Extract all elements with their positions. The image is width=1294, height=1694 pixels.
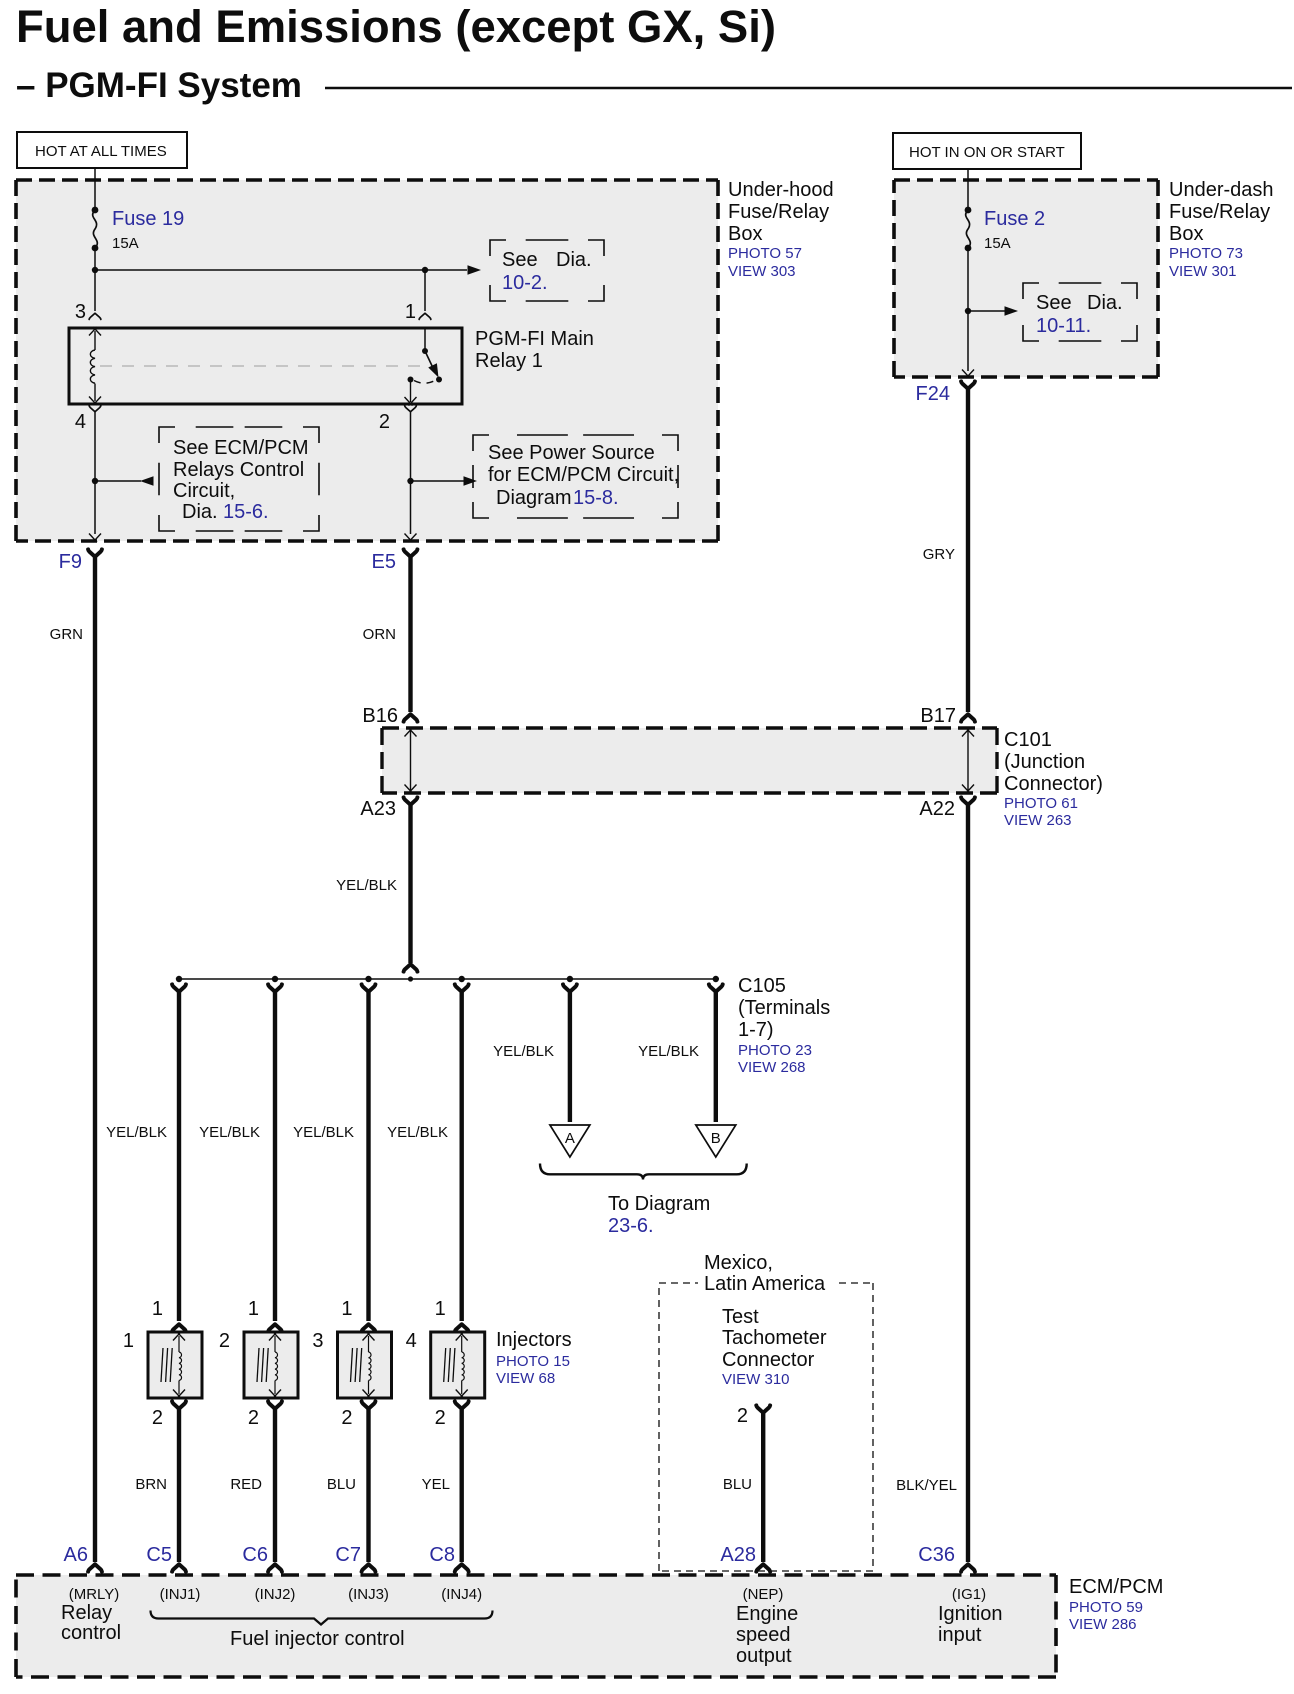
svg-text:VIEW 303: VIEW 303 <box>728 263 796 280</box>
wire: HOT AT ALL TIMES feed to Fuse 19 <box>94 168 96 210</box>
junction node (95,270) <box>92 267 98 273</box>
svg-text:Dia.: Dia. <box>556 249 592 271</box>
arrowhead at under-hood box exit (E5) <box>405 534 417 543</box>
connector B16 chevron <box>404 714 418 721</box>
wire: stub to See Dia. 10-11 <box>968 310 1005 312</box>
injector 4 body <box>431 1332 485 1398</box>
svg-text:Connector): Connector) <box>1004 773 1103 795</box>
connector chevron below injector 3 <box>362 1401 376 1408</box>
svg-text:Fuse 19: Fuse 19 <box>112 208 184 230</box>
connector C7 chevron at ECM/PCM <box>362 1564 376 1571</box>
svg-text:BLU: BLU <box>723 1476 752 1493</box>
fuse F2 15A <box>965 207 972 252</box>
svg-text:1: 1 <box>435 1298 446 1320</box>
svg-text:BLU: BLU <box>327 1476 356 1493</box>
svg-text:HOT AT ALL TIMES: HOT AT ALL TIMES <box>35 143 167 160</box>
injector 2 body <box>244 1332 298 1398</box>
svg-text:C7: C7 <box>335 1544 361 1566</box>
svg-text:(INJ1): (INJ1) <box>160 1586 201 1603</box>
junction node (425,270) <box>422 267 428 273</box>
svg-text:C8: C8 <box>429 1544 455 1566</box>
svg-text:1: 1 <box>341 1298 352 1320</box>
svg-text:input: input <box>938 1624 982 1646</box>
arrowhead at under-hood box exit (F9) <box>89 534 101 543</box>
svg-text:YEL/BLK: YEL/BLK <box>387 1124 448 1141</box>
connector chevron below injector 4 <box>455 1401 469 1408</box>
svg-text:(IG1): (IG1) <box>952 1586 986 1603</box>
svg-text:2: 2 <box>341 1407 352 1429</box>
relay coil L (pin3-pin4) <box>89 327 101 336</box>
svg-text:BLK/YEL: BLK/YEL <box>896 1477 957 1494</box>
svg-text:Injectors: Injectors <box>496 1329 572 1351</box>
svg-text:C105: C105 <box>738 975 786 997</box>
svg-text:15-8.: 15-8. <box>573 487 619 509</box>
svg-text:Under-dash: Under-dash <box>1169 179 1274 201</box>
svg-text:HOT IN ON OR START: HOT IN ON OR START <box>909 144 1065 161</box>
svg-text:VIEW 263: VIEW 263 <box>1004 812 1072 829</box>
svg-text:1: 1 <box>123 1330 134 1352</box>
svg-text:2: 2 <box>152 1407 163 1429</box>
svg-text:(INJ4): (INJ4) <box>441 1586 482 1603</box>
svg-text:output: output <box>736 1645 792 1667</box>
annotation box See Power Source for ECM/PCM Circuit Diagram 15-8 <box>473 435 678 518</box>
connector A23 chevron <box>404 797 418 804</box>
white mask behind Latin America text <box>698 1270 834 1296</box>
svg-text:VIEW 268: VIEW 268 <box>738 1059 806 1076</box>
C105 branch connector chevron 2 <box>268 984 282 991</box>
Mexico Latin America variant enclosure <box>659 1283 873 1571</box>
junction node (968,311) <box>965 308 971 314</box>
svg-text:F24: F24 <box>916 383 950 405</box>
arrowhead to See Dia. 10-11 <box>1005 306 1019 316</box>
svg-text:PHOTO 59: PHOTO 59 <box>1069 1599 1143 1616</box>
junction connector C101 <box>382 728 997 793</box>
svg-text:4: 4 <box>75 411 86 433</box>
wire C105 branch 6 to triangle B (YEL/BLK) <box>714 992 718 1122</box>
svg-text:C5: C5 <box>146 1544 172 1566</box>
pin 1 connector chevron <box>419 313 431 319</box>
wire: fuse 19 to node at y270 <box>94 248 96 270</box>
wire C105 branch 1 to injector 1 (YEL/BLK) <box>177 992 181 1321</box>
injector 2 coil <box>269 1332 281 1341</box>
svg-text:1: 1 <box>405 301 416 323</box>
svg-text:PHOTO 61: PHOTO 61 <box>1004 795 1078 812</box>
under-dash fuse/relay box enclosure <box>894 180 1158 377</box>
svg-text:Fuse/Relay: Fuse/Relay <box>728 201 829 223</box>
svg-text:ECM/PCM: ECM/PCM <box>1069 1576 1163 1598</box>
svg-text:Relay 1: Relay 1 <box>475 350 543 372</box>
wire C105 branch 3 to injector 3 (YEL/BLK) <box>366 992 370 1321</box>
svg-text:YEL/BLK: YEL/BLK <box>106 1124 167 1141</box>
svg-text:C101: C101 <box>1004 729 1052 751</box>
relay switch throw dashed arc <box>414 381 435 384</box>
connector A28 chevron at ECM/PCM <box>756 1564 770 1571</box>
arrowhead at under-dash box exit (F24) <box>962 370 974 379</box>
connector C36 chevron at ECM/PCM <box>961 1564 975 1571</box>
svg-text:A6: A6 <box>64 1544 88 1566</box>
C105 junction bus <box>179 978 716 980</box>
junction node (179,979) <box>176 976 182 982</box>
svg-text:10-11.: 10-11. <box>1036 315 1091 337</box>
svg-text:See: See <box>1036 292 1072 314</box>
svg-text:for ECM/PCM Circuit,: for ECM/PCM Circuit, <box>488 464 679 486</box>
svg-text:Test: Test <box>722 1306 759 1328</box>
wire injector 4 to C8 <box>460 1409 464 1562</box>
injector 3 body <box>338 1332 392 1398</box>
svg-text:Fuse 2: Fuse 2 <box>984 208 1045 230</box>
svg-text:Fuse/Relay: Fuse/Relay <box>1169 201 1270 223</box>
svg-text:PHOTO 57: PHOTO 57 <box>728 245 802 262</box>
svg-text:Ignition: Ignition <box>938 1603 1003 1625</box>
C105 branch connector chevron 5 <box>563 984 577 991</box>
C105 branch connector chevron 3 <box>362 984 376 991</box>
svg-text:(INJ2): (INJ2) <box>255 1586 296 1603</box>
wire: node to relay pin 3 <box>94 270 96 311</box>
svg-text:(INJ3): (INJ3) <box>348 1586 389 1603</box>
off-page connector triangle B <box>696 1125 736 1157</box>
connector A22 chevron <box>961 797 975 804</box>
pin 3 connector chevron <box>89 313 101 319</box>
wire A23 to C105 (YEL/BLK) <box>408 805 412 963</box>
connector C8 chevron at ECM/PCM <box>455 1564 469 1571</box>
off-page connector triangle A <box>550 1125 590 1157</box>
injector 1 coil <box>173 1332 185 1341</box>
svg-text:control: control <box>61 1622 121 1644</box>
svg-text:ORN: ORN <box>363 626 396 643</box>
junction node (275,979) <box>272 976 278 982</box>
svg-text:Latin America: Latin America <box>704 1273 826 1295</box>
C105 branch connector chevron 6 <box>709 984 723 991</box>
wire A22 to C36 (BLK/YEL) <box>966 805 970 1562</box>
svg-text:RED: RED <box>230 1476 262 1493</box>
svg-text:3: 3 <box>312 1330 323 1352</box>
wire C105 branch 4 to injector 4 (YEL/BLK) <box>460 992 464 1321</box>
svg-text:YEL/BLK: YEL/BLK <box>638 1043 699 1060</box>
svg-text:YEL/BLK: YEL/BLK <box>336 877 397 894</box>
wire F9 to A6 (GRN) <box>93 557 97 1562</box>
svg-text:Tachometer: Tachometer <box>722 1327 827 1349</box>
wire injector 2 to C6 <box>273 1409 277 1562</box>
connector chevron above injector 1 <box>172 1324 186 1331</box>
connector B17 chevron <box>961 714 975 721</box>
wire C105 branch 2 to injector 2 (YEL/BLK) <box>273 992 277 1321</box>
annotation box See Dia. 10-11 <box>1023 283 1137 341</box>
svg-text:See: See <box>502 249 538 271</box>
svg-text:Mexico,: Mexico, <box>704 1252 773 1274</box>
svg-text:PHOTO 23: PHOTO 23 <box>738 1042 812 1059</box>
wire: horizontal bus to See Dia. 10-2 <box>95 269 467 271</box>
svg-text:(Junction: (Junction <box>1004 751 1085 773</box>
svg-text:Box: Box <box>1169 223 1203 245</box>
svg-text:15A: 15A <box>984 235 1011 252</box>
junction node (461.7,979) <box>459 976 465 982</box>
svg-text:GRY: GRY <box>923 546 955 563</box>
svg-text:PHOTO 73: PHOTO 73 <box>1169 245 1243 262</box>
ECM/PCM enclosure <box>16 1575 1056 1677</box>
svg-text:(Terminals: (Terminals <box>738 997 830 1019</box>
wire: HOT IN ON OR START feed to Fuse 2 <box>967 169 969 210</box>
under-hood fuse/relay box enclosure <box>16 180 718 541</box>
wire E5 to B16 (ORN) <box>408 557 412 712</box>
connector C6 chevron at ECM/PCM <box>268 1564 282 1571</box>
svg-text:YEL: YEL <box>422 1476 450 1493</box>
svg-text:Relays Control: Relays Control <box>173 459 304 481</box>
connector A6 chevron at ECM/PCM <box>88 1564 102 1571</box>
svg-text:VIEW 286: VIEW 286 <box>1069 1616 1137 1633</box>
svg-text:A: A <box>565 1130 575 1147</box>
C105 branch connector chevron 1 <box>172 984 186 991</box>
svg-text:3: 3 <box>75 301 86 323</box>
injector 2 internal plates <box>257 1348 259 1382</box>
svg-text:C6: C6 <box>242 1544 268 1566</box>
connector chevron below injector 1 <box>172 1401 186 1408</box>
svg-text:15A: 15A <box>112 235 139 252</box>
connector chevron above injector 4 <box>455 1324 469 1331</box>
svg-text:A22: A22 <box>919 798 955 820</box>
svg-text:See Power Source: See Power Source <box>488 442 655 464</box>
svg-text:VIEW 68: VIEW 68 <box>496 1370 555 1387</box>
wire F24 to B17 (GRY) <box>966 389 970 712</box>
wire: stub to See ECM/PCM Relays box <box>95 480 141 482</box>
svg-text:Fuel injector control: Fuel injector control <box>230 1628 405 1650</box>
arrowhead to See ECM/PCM Relays Control <box>140 476 154 486</box>
connector chevron above injector 2 <box>268 1324 282 1331</box>
C101 internal pass-through (left) <box>410 731 412 790</box>
svg-text:Dia.: Dia. <box>1087 292 1123 314</box>
svg-text:YEL/BLK: YEL/BLK <box>293 1124 354 1141</box>
wire injector 3 to C7 <box>366 1409 370 1562</box>
injector 3 coil <box>363 1332 375 1341</box>
svg-text:Under-hood: Under-hood <box>728 179 834 201</box>
relay switch (pin1-pin2) <box>424 328 426 351</box>
connector chevron above injector 3 <box>362 1324 376 1331</box>
injector 1 body <box>148 1332 202 1398</box>
connector E5 chevron <box>404 549 418 556</box>
svg-text:Engine: Engine <box>736 1603 798 1625</box>
pin 2 connector chevron <box>405 406 417 412</box>
svg-text:See ECM/PCM: See ECM/PCM <box>173 437 309 459</box>
connector F24 chevron <box>961 381 975 388</box>
svg-text:1: 1 <box>152 1298 163 1320</box>
bracket for fuel injector control <box>151 1611 493 1625</box>
svg-text:YEL/BLK: YEL/BLK <box>493 1043 554 1060</box>
svg-text:15-6.: 15-6. <box>223 501 269 523</box>
svg-text:Diagram: Diagram <box>496 487 572 509</box>
svg-text:speed: speed <box>736 1624 791 1646</box>
svg-text:Dia.: Dia. <box>182 501 218 523</box>
svg-text:Fuel and Emissions (except GX,: Fuel and Emissions (except GX, Si) <box>16 1 776 52</box>
svg-text:Circuit,: Circuit, <box>173 480 235 502</box>
wire: relay pin 2 down to E5 <box>410 412 412 534</box>
junction node (95,481) <box>92 478 98 484</box>
svg-text:Relay: Relay <box>61 1602 112 1624</box>
svg-text:10-2.: 10-2. <box>502 272 548 294</box>
wire: node to relay pin 1 <box>424 270 426 311</box>
wire: switch to relay pin 2 <box>410 380 412 403</box>
svg-text:E5: E5 <box>372 551 396 573</box>
relay K1 PGM-FI Main Relay 1 body <box>69 328 462 404</box>
svg-text:VIEW 310: VIEW 310 <box>722 1371 790 1388</box>
injector 4 internal plates <box>444 1348 446 1382</box>
svg-text:23-6.: 23-6. <box>608 1215 654 1237</box>
svg-text:PHOTO 15: PHOTO 15 <box>496 1353 570 1370</box>
svg-text:2: 2 <box>379 411 390 433</box>
junction node (410.5,979) <box>408 976 413 981</box>
svg-text:(NEP): (NEP) <box>743 1586 784 1603</box>
junction node (411,481) <box>407 478 413 484</box>
arrowhead to See Dia. 10-2 <box>468 265 482 275</box>
junction node (569.9,979) <box>567 976 573 982</box>
relay switch arm arrowhead <box>428 363 443 379</box>
svg-text:2: 2 <box>435 1407 446 1429</box>
svg-text:1: 1 <box>248 1298 259 1320</box>
svg-text:1-7): 1-7) <box>738 1019 774 1041</box>
svg-text:To Diagram: To Diagram <box>608 1193 710 1215</box>
arrowhead to See Power Source <box>464 476 478 486</box>
svg-text:– PGM-FI System: – PGM-FI System <box>16 66 302 105</box>
svg-text:GRN: GRN <box>50 626 83 643</box>
svg-text:(MRLY): (MRLY) <box>69 1586 120 1603</box>
junction node (368.5,979) <box>365 976 371 982</box>
svg-text:2: 2 <box>248 1407 259 1429</box>
wire: fuse 2 down to F24 <box>967 248 969 371</box>
svg-text:A23: A23 <box>360 798 396 820</box>
wire: stub to See Power Source box <box>411 480 465 482</box>
wire tach pin 2 to A28 (BLU) <box>761 1413 765 1562</box>
svg-text:VIEW 301: VIEW 301 <box>1169 263 1237 280</box>
svg-text:BRN: BRN <box>135 1476 167 1493</box>
junction node (715.8,979) <box>713 976 719 982</box>
svg-text:C36: C36 <box>918 1544 955 1566</box>
svg-text:2: 2 <box>737 1405 748 1427</box>
svg-text:B16: B16 <box>362 705 398 727</box>
wire C105 branch 5 to triangle A (YEL/BLK) <box>568 992 572 1122</box>
connector chevron below injector 2 <box>268 1401 282 1408</box>
C105 branch connector chevron 4 <box>455 984 469 991</box>
connector chevron at C105 feed <box>404 964 418 971</box>
svg-text:PGM-FI Main: PGM-FI Main <box>475 328 594 350</box>
svg-text:YEL/BLK: YEL/BLK <box>199 1124 260 1141</box>
svg-text:A28: A28 <box>720 1544 756 1566</box>
svg-text:2: 2 <box>219 1330 230 1352</box>
svg-text:Connector: Connector <box>722 1349 815 1371</box>
connector C5 chevron at ECM/PCM <box>172 1564 186 1571</box>
label box HOT AT ALL TIMES <box>17 132 187 168</box>
svg-text:B17: B17 <box>920 705 956 727</box>
wire: relay pin 4 down to F9 <box>94 412 96 534</box>
wire injector 1 to C5 <box>177 1409 181 1562</box>
annotation box See ECM/PCM Relays Control Circuit Dia. 15-6 <box>159 427 319 531</box>
svg-text:B: B <box>711 1130 721 1147</box>
C101 internal pass-through (right) <box>967 731 969 790</box>
injector 3 internal plates <box>351 1348 353 1382</box>
svg-text:F9: F9 <box>59 551 82 573</box>
connector F9 chevron <box>88 549 102 556</box>
subtitle rule <box>325 87 1292 90</box>
svg-text:Box: Box <box>728 223 762 245</box>
connector chevron tach pin 2 <box>756 1405 770 1412</box>
fuse F19 15A <box>92 207 99 252</box>
label box HOT IN ON OR START <box>893 133 1081 169</box>
brace under triangles <box>540 1164 747 1180</box>
pin 4 connector chevron <box>89 406 101 412</box>
injector 1 internal plates <box>161 1348 163 1382</box>
svg-text:4: 4 <box>406 1330 417 1352</box>
annotation box See Dia. 10-2 <box>490 240 604 301</box>
injector 4 coil <box>456 1332 468 1341</box>
relay internal link dashed line <box>100 365 420 367</box>
